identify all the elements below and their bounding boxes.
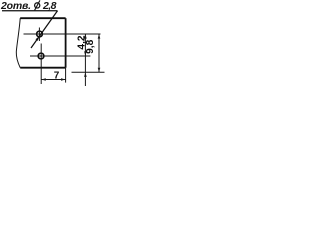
hole 2 horizontal centerline / extension line B — [30, 55, 90, 57]
dim 4,2 arrow up at A — [84, 34, 87, 39]
dimension line 4,2 — [84, 34, 86, 86]
leader line to hole 1 — [31, 11, 58, 48]
hole 1 circle — [37, 31, 43, 37]
part right edge — [65, 18, 67, 67]
dim 9,8 arrow down at C — [98, 68, 101, 73]
svg-text:9,8: 9,8 — [85, 39, 96, 53]
dim 9,8 arrow up at A — [98, 34, 101, 39]
dim 4,2 arrow down at B — [84, 51, 87, 56]
datum extension line C — [72, 71, 105, 73]
hole 1 horizontal centerline / extension line A — [24, 33, 101, 35]
dim 7 arrow right — [61, 78, 66, 81]
hole 2 vertical centerline / extension for dim 7 — [40, 44, 42, 85]
dimension line 9,8 — [98, 34, 100, 72]
part top edge — [20, 17, 65, 19]
hole 1 vertical centerline — [38, 28, 40, 42]
part bottom edge — [20, 67, 65, 69]
right edge extension line — [65, 68, 67, 83]
part left break line (wavy) — [16, 18, 20, 67]
svg-text:7: 7 — [54, 71, 60, 82]
dim 4,2 arrow up at C — [84, 72, 87, 77]
dimension line 7 — [41, 79, 65, 81]
dim 7 arrow left — [41, 78, 46, 81]
leader underline — [2, 10, 58, 12]
hole 2 circle — [38, 53, 44, 59]
leader arrowhead — [35, 36, 39, 41]
